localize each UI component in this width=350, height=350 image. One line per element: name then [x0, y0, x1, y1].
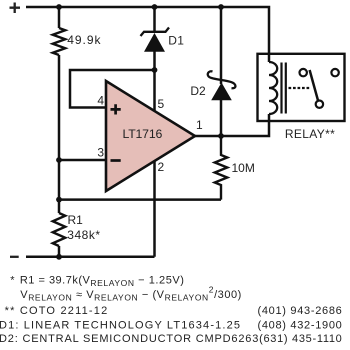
junction node D1 bottom: [152, 67, 158, 73]
wire output net: [194, 121, 269, 136]
resistor 10M: [215, 136, 255, 200]
zener diode D1: [141, 28, 185, 52]
svg-text:4: 4: [97, 93, 104, 107]
terminal -: [10, 256, 19, 258]
svg-text:(401) 943-2686: (401) 943-2686: [257, 305, 342, 317]
svg-text:RELAY**: RELAY**: [285, 127, 335, 141]
junction node R1 bottom: [56, 254, 62, 260]
junction node top-left rail: [56, 4, 62, 10]
junction node 10M bottom: [56, 197, 62, 203]
svg-text:(408) 432-1900: (408) 432-1900: [257, 319, 342, 331]
resistor 49.9k: [53, 28, 102, 55]
junction node output/10M: [218, 133, 224, 139]
svg-text:1: 1: [196, 118, 203, 132]
diode D2: [190, 71, 235, 99]
wire top rail: [26, 7, 269, 54]
svg-text:2: 2: [158, 160, 165, 174]
wire bottom rail: [26, 256, 155, 259]
wire pin 5: [153, 70, 156, 113]
wire left rail lower: [58, 246, 61, 257]
svg-text:D2: CENTRAL SEMICONDUCTOR CMPD: D2: CENTRAL SEMICONDUCTOR CMPD6263: [0, 333, 259, 345]
junction node D1 top: [152, 4, 158, 10]
svg-text:3: 3: [97, 145, 104, 159]
wire left rail mid: [58, 55, 61, 213]
wire D2 column lower: [220, 99, 223, 136]
wire pin 2 column: [153, 158, 156, 257]
svg-text:** COTO 2211-12: ** COTO 2211-12: [5, 305, 109, 317]
wire left rail upper: [58, 7, 61, 28]
svg-text:D1: D1: [168, 33, 184, 47]
svg-text:348k*: 348k*: [67, 228, 100, 242]
wire D1 column lower: [153, 51, 156, 70]
svg-text:LT1716: LT1716: [123, 127, 163, 141]
wire D1 column upper: [153, 7, 156, 33]
wire pin 3: [59, 159, 106, 162]
svg-text:R1: R1: [68, 213, 84, 227]
svg-text:49.9k: 49.9k: [67, 33, 101, 47]
op-amp U1 LT1716: [106, 81, 195, 191]
junction node pin3: [56, 157, 62, 163]
relay RELAY**: [258, 54, 345, 141]
svg-text:D1: LINEAR TECHNOLOGY LT1634-1: D1: LINEAR TECHNOLOGY LT1634-1.25: [0, 320, 241, 332]
resistor R1: [53, 213, 101, 246]
svg-text:5: 5: [158, 97, 165, 111]
svg-text:D2: D2: [190, 84, 206, 98]
wire D2 column upper: [220, 7, 223, 84]
wire noninverting loop (pin 4): [70, 70, 155, 108]
wire 10M bottom: [59, 198, 221, 201]
svg-text:(631) 435-1110: (631) 435-1110: [259, 333, 342, 345]
svg-text:10M: 10M: [232, 161, 255, 175]
terminal +: [10, 3, 21, 14]
junction node D2 top: [218, 4, 224, 10]
